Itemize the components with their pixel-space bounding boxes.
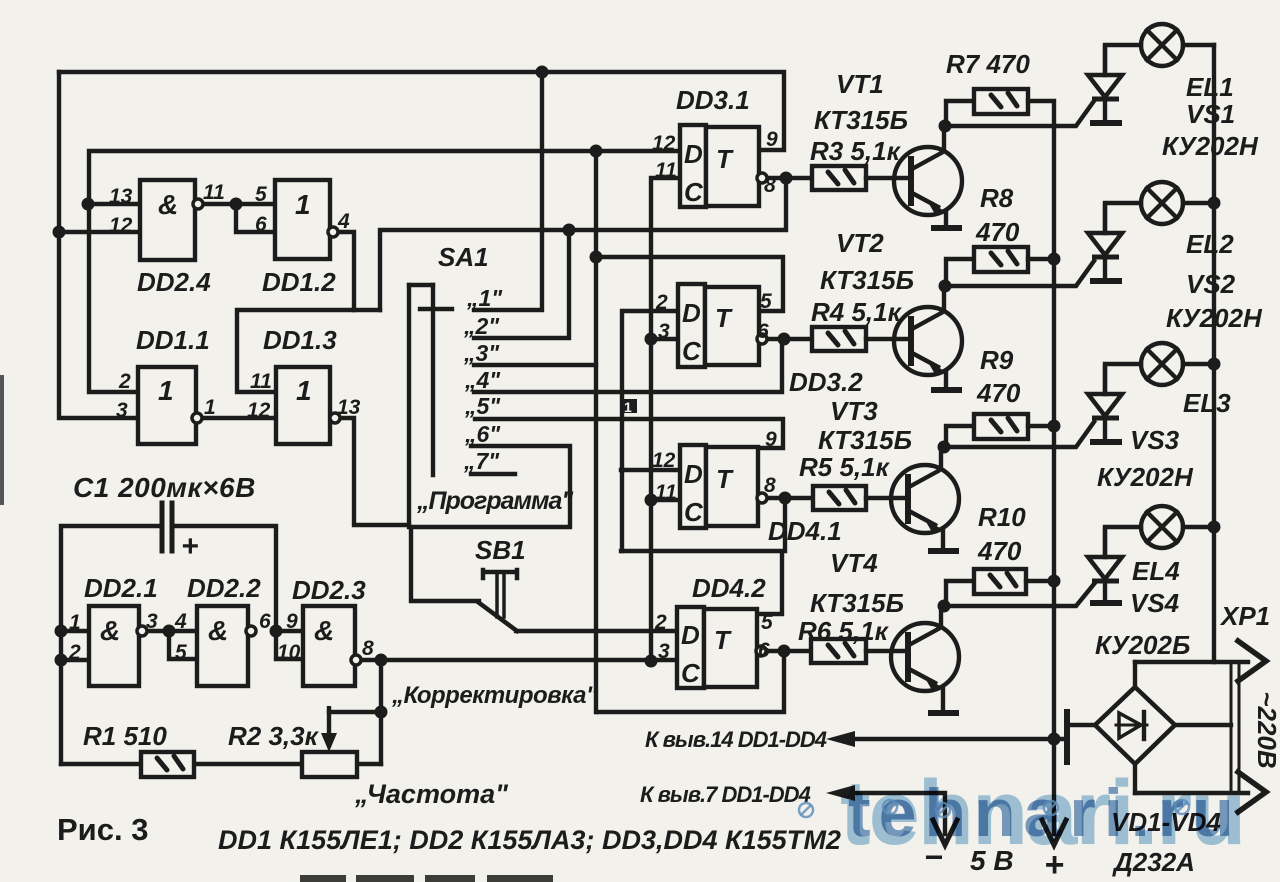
svg-text:D: D bbox=[684, 139, 703, 169]
svg-text:6: 6 bbox=[758, 639, 770, 662]
svg-text:VT4: VT4 bbox=[830, 548, 878, 578]
button SB1 actuator bar bbox=[483, 570, 517, 578]
wire DD2.4 pin 13 bbox=[88, 202, 140, 206]
bridge AC terminal bar bbox=[1064, 712, 1070, 762]
wire DD2.3 pin 9 bbox=[276, 629, 303, 633]
svg-text:3: 3 bbox=[658, 640, 670, 663]
svg-text:К выв.7 DD1-DD4: К выв.7 DD1-DD4 bbox=[640, 782, 811, 807]
svg-text:5: 5 bbox=[760, 290, 772, 313]
flip-flop DD4.1 D box bbox=[680, 445, 706, 528]
wire DD3.2 pin 6 to R4 bbox=[766, 337, 812, 341]
wire DD2.3 pin 10 jog bbox=[276, 631, 303, 659]
wire right rail bbox=[1212, 45, 1216, 662]
svg-text:R8: R8 bbox=[980, 183, 1014, 213]
switch SA1 wiper top join bbox=[409, 283, 433, 287]
svg-text:DD2.1: DD2.1 bbox=[84, 573, 158, 603]
svg-text:DD1.2: DD1.2 bbox=[262, 267, 336, 297]
gate DD1.1 box bbox=[138, 367, 196, 444]
svg-text:6: 6 bbox=[757, 320, 769, 343]
svg-text:T: T bbox=[715, 303, 733, 333]
svg-text:DD3.1: DD3.1 bbox=[676, 85, 750, 115]
wire DD4.2 pin 6 loop bbox=[597, 651, 784, 712]
resistor R8 marks bbox=[991, 251, 1017, 265]
svg-text:R1 510: R1 510 bbox=[83, 721, 167, 751]
wire DD2.1 pin 1 bbox=[61, 629, 89, 633]
arrow minus head bbox=[933, 820, 957, 845]
thyristor VS4 bbox=[1088, 527, 1122, 603]
svg-text:КТ315Б: КТ315Б bbox=[810, 588, 904, 618]
wire VS4 gate bbox=[944, 584, 1094, 606]
svg-text:R6 5,1к: R6 5,1к bbox=[798, 616, 890, 646]
potentiometer R2 wiper arrow bbox=[327, 706, 331, 736]
gate DD1.3 box bbox=[276, 367, 330, 444]
svg-text:T: T bbox=[716, 464, 734, 494]
svg-text:EL1: EL1 bbox=[1186, 72, 1234, 102]
wire bridge top lead bbox=[1133, 662, 1137, 687]
resistor R10 marks bbox=[990, 573, 1016, 587]
svg-text:К выв.14 DD1-DD4: К выв.14 DD1-DD4 bbox=[645, 727, 827, 752]
wire R4 to VT2 base bbox=[866, 337, 908, 341]
transistor VT3 bbox=[891, 447, 959, 551]
svg-text:C: C bbox=[681, 658, 701, 688]
wire DD2.2 pin 4 bbox=[169, 629, 197, 633]
resistor R10 body bbox=[974, 569, 1026, 594]
svg-text:VT2: VT2 bbox=[836, 228, 884, 258]
svg-text:DD4.2: DD4.2 bbox=[692, 573, 766, 603]
svg-text:„2": „2" bbox=[463, 313, 500, 339]
connector XP1 double line bbox=[1231, 663, 1239, 793]
inversion circle DD3.1 pin 8 bbox=[757, 173, 767, 183]
wire DD4.2 pin 6 to R6 bbox=[765, 649, 811, 653]
svg-text:8: 8 bbox=[362, 637, 374, 660]
inversion circle DD1.2 out bbox=[328, 227, 338, 237]
svg-text:VS2: VS2 bbox=[1186, 269, 1236, 299]
inversion circle DD2.1 out bbox=[137, 626, 147, 636]
svg-text:D: D bbox=[681, 620, 700, 650]
wire to pin 14 arrow line bbox=[838, 737, 1067, 741]
svg-text:„6": „6" bbox=[464, 421, 501, 447]
svg-text:DD1.1: DD1.1 bbox=[136, 325, 210, 355]
wire DD3.2 pin 2 riser bbox=[622, 311, 678, 551]
svg-text:3: 3 bbox=[658, 320, 670, 343]
artifact left edge bbox=[0, 375, 4, 505]
wire SA1 contact 7 bbox=[471, 472, 515, 476]
wire DD1.3 out 13 to SA1 wiper bbox=[339, 418, 409, 525]
wire R7 left lead bbox=[946, 101, 974, 126]
svg-text:„4": „4" bbox=[464, 367, 501, 393]
svg-text:&: & bbox=[158, 189, 178, 220]
wire DD2.1 out node bbox=[146, 629, 169, 633]
wire vertical net x596 bbox=[594, 151, 598, 712]
svg-text:КУ202Н: КУ202Н bbox=[1166, 303, 1263, 333]
lamp EL2 bbox=[1105, 182, 1214, 233]
wire to pin 7 arrow line bbox=[838, 793, 945, 834]
svg-text:9: 9 bbox=[765, 428, 777, 451]
svg-text:12: 12 bbox=[247, 399, 271, 422]
wire DD3.1 pin 8 to R3 bbox=[766, 176, 812, 180]
wire R8 left lead bbox=[946, 259, 974, 286]
wire R8 right lead bbox=[1028, 257, 1054, 261]
inversion circle DD1.1 out bbox=[192, 413, 202, 423]
inversion circle DD4.2 pin 6 bbox=[756, 646, 766, 656]
svg-text:КУ202Н: КУ202Н bbox=[1097, 462, 1194, 492]
resistor R9 body bbox=[974, 414, 1028, 439]
wire DD4.1 pin 12 bbox=[621, 468, 680, 472]
resistor R6 body bbox=[811, 639, 866, 663]
svg-text:8: 8 bbox=[764, 474, 776, 497]
svg-text:&: & bbox=[208, 615, 228, 646]
svg-text:12: 12 bbox=[652, 132, 676, 155]
wire SA1 contact 1 bbox=[474, 72, 542, 310]
wire long net A DD1.2 pin4 to DD3.1 pin8 bbox=[380, 178, 786, 310]
svg-text:„Программа": „Программа" bbox=[416, 487, 574, 515]
svg-text:8: 8 bbox=[764, 174, 776, 197]
wire DD4.2 pin 5 riser bbox=[757, 553, 782, 614]
svg-text:DD1 К155ЛЕ1; DD2 К155ЛА3;: DD1 К155ЛЕ1; DD2 К155ЛА3; DD3,DD4 К155ТМ… bbox=[218, 825, 841, 855]
resistor R8 body bbox=[974, 247, 1028, 272]
svg-text:EL3: EL3 bbox=[1183, 388, 1231, 418]
thyristor VS3 bbox=[1088, 364, 1122, 442]
wire SA1 contact 2 bbox=[474, 230, 569, 338]
wire R2 wiper top bbox=[329, 710, 381, 714]
lamp EL3 bbox=[1105, 343, 1214, 394]
junction dots bbox=[82, 198, 95, 211]
svg-text:1: 1 bbox=[624, 399, 632, 415]
wire bridge left lead bbox=[1067, 723, 1095, 727]
flip-flop DD3.2 D box bbox=[678, 284, 705, 367]
svg-text:Рис. 3: Рис. 3 bbox=[57, 812, 148, 847]
arrow XP1 top head bbox=[1238, 641, 1266, 681]
wire second rail to DD3.1 pin 12 bbox=[89, 151, 680, 392]
svg-text:КУ202Н: КУ202Н bbox=[1162, 131, 1259, 161]
wire DD3.2 pin 3 bbox=[651, 337, 678, 341]
svg-text:13: 13 bbox=[337, 396, 361, 419]
svg-text:КТ315Б: КТ315Б bbox=[818, 425, 912, 455]
inversion circle DD2.3 out bbox=[351, 655, 361, 665]
wire net B to DD3.2 pin 5 bbox=[596, 257, 783, 311]
watermark circles bbox=[799, 800, 1189, 817]
wire bridge right lead bbox=[1175, 723, 1231, 727]
wire VS3 gate bbox=[944, 422, 1094, 447]
wire DD1.1 out to DD1.3 pin 12 bbox=[201, 416, 276, 420]
svg-text:2: 2 bbox=[655, 291, 668, 314]
resistor R4 marks bbox=[828, 331, 854, 345]
resistor R7 body bbox=[974, 89, 1028, 114]
resistor R7 marks bbox=[991, 93, 1017, 107]
svg-text:5: 5 bbox=[255, 183, 267, 206]
resistor R1 power marks bbox=[157, 756, 183, 770]
inversion circle DD1.3 out bbox=[330, 413, 340, 423]
svg-text:3: 3 bbox=[116, 399, 128, 422]
wire DD1.2 pin 6 jog bbox=[236, 204, 275, 232]
svg-text:11: 11 bbox=[250, 370, 272, 393]
svg-text:~220В: ~220В bbox=[1252, 691, 1280, 768]
svg-text:„3": „3" bbox=[463, 340, 500, 366]
svg-text:DD3.2: DD3.2 bbox=[789, 367, 863, 397]
inversion circle DD2.2 out bbox=[246, 626, 256, 636]
wire DD1.2 pin 4 output bbox=[337, 232, 354, 310]
svg-text:VT3: VT3 bbox=[830, 396, 878, 426]
svg-text:1: 1 bbox=[69, 611, 81, 634]
wire R9 left lead bbox=[946, 426, 974, 447]
wire VS1 gate bbox=[945, 101, 1094, 126]
svg-text:&: & bbox=[314, 615, 334, 646]
transistor VT1 bbox=[894, 126, 962, 228]
transistor VT4 bbox=[891, 606, 959, 713]
switch SA1 wiper contact dash bbox=[420, 307, 452, 311]
svg-text:R4 5,1к: R4 5,1к bbox=[811, 297, 903, 327]
wire DD1.2 pin 5 bbox=[236, 202, 275, 206]
svg-text:R7 470: R7 470 bbox=[946, 49, 1030, 79]
svg-text:R9: R9 bbox=[980, 345, 1014, 375]
gate DD1.2 box bbox=[275, 180, 330, 259]
svg-text:T: T bbox=[714, 625, 732, 655]
svg-text:DD1.3: DD1.3 bbox=[263, 325, 337, 355]
svg-text:C: C bbox=[682, 336, 702, 366]
svg-text:9: 9 bbox=[766, 128, 778, 151]
transistor VT2 bbox=[894, 286, 962, 390]
svg-text:VS3: VS3 bbox=[1130, 425, 1180, 455]
svg-text:9: 9 bbox=[286, 610, 298, 633]
lamp EL1 bbox=[1105, 24, 1214, 75]
svg-text:КТ315Б: КТ315Б bbox=[814, 105, 908, 135]
svg-text:SB1: SB1 bbox=[475, 535, 526, 565]
resistor R9 marks bbox=[991, 418, 1017, 432]
wire R3 to VT1 base bbox=[866, 176, 908, 180]
wire R10 right lead bbox=[1026, 579, 1054, 583]
svg-text:C: C bbox=[684, 177, 704, 207]
wire clock line bbox=[651, 178, 680, 661]
wire VS2 gate bbox=[945, 261, 1094, 286]
svg-text:470: 470 bbox=[975, 217, 1020, 247]
wire DD2.1 pin 2 bbox=[61, 658, 89, 662]
wire bridge bottom lead bbox=[1133, 764, 1137, 793]
capacitor C1 right plate bbox=[170, 503, 175, 551]
switch SA1 wiper bracket right bbox=[431, 285, 435, 475]
svg-text:„7": „7" bbox=[463, 448, 500, 474]
svg-text:1: 1 bbox=[158, 375, 174, 406]
svg-text:R5 5,1к: R5 5,1к bbox=[799, 452, 891, 482]
gate DD2.1 box bbox=[89, 606, 139, 686]
wire R10 left lead bbox=[946, 581, 974, 606]
flip-flop DD4.1 T box bbox=[706, 447, 758, 526]
svg-text:470: 470 bbox=[977, 536, 1022, 566]
thyristor VS1 bbox=[1088, 45, 1122, 123]
svg-text:„5": „5" bbox=[464, 393, 501, 419]
svg-text:XP1: XP1 bbox=[1219, 601, 1270, 631]
wire R5 to VT3 base bbox=[866, 496, 905, 500]
arrow plus head bbox=[1042, 820, 1066, 845]
wire R2 branch bbox=[379, 660, 383, 764]
wire DD4.1 pin 8 to R5 bbox=[766, 496, 813, 500]
gate DD2.4 box bbox=[140, 180, 195, 260]
svg-text:1: 1 bbox=[295, 189, 311, 220]
wire plus rail bbox=[1028, 101, 1054, 739]
svg-text:КУ202Б: КУ202Б bbox=[1095, 630, 1190, 660]
wire DD4.1 feedback bottom bbox=[621, 498, 785, 551]
potentiometer R2 body bbox=[302, 752, 357, 777]
svg-text:2: 2 bbox=[68, 641, 81, 664]
svg-text:VS4: VS4 bbox=[1130, 588, 1180, 618]
wire DD2.4 out to node bbox=[202, 202, 236, 206]
svg-text:R2 3,3к: R2 3,3к bbox=[228, 721, 320, 751]
gate DD2.2 box bbox=[197, 606, 248, 686]
capacitor C1 left plate bbox=[160, 503, 165, 551]
thyristor VS2 bbox=[1088, 203, 1122, 281]
lamp EL4 bbox=[1105, 506, 1214, 557]
svg-text:11: 11 bbox=[655, 481, 677, 504]
resistor R5 body bbox=[813, 486, 866, 510]
svg-text:„Частота": „Частота" bbox=[354, 779, 509, 809]
svg-text:DD4.1: DD4.1 bbox=[768, 516, 842, 546]
wire DD2.4 pin 12 bbox=[59, 230, 140, 234]
flip-flop DD3.2 T box bbox=[705, 287, 759, 365]
svg-text:1: 1 bbox=[204, 396, 216, 419]
wire SB1 to DD4.2 pin 2 bbox=[516, 629, 677, 633]
svg-text:3: 3 bbox=[146, 610, 158, 633]
flip-flop DD4.2 T box bbox=[704, 609, 757, 687]
wire bottom rail R1 R2 bbox=[61, 762, 381, 766]
resistor R3 body bbox=[812, 166, 866, 190]
wire R9 right lead bbox=[1028, 424, 1054, 428]
artifact ink blob bbox=[620, 399, 637, 415]
wire left vertical to DD1.1 pin 3 bbox=[59, 72, 138, 418]
svg-text:С1 200мк×6В: С1 200мк×6В bbox=[73, 472, 256, 503]
bridge rectifier VD1-VD4 diamond bbox=[1095, 687, 1175, 764]
svg-text:470: 470 bbox=[976, 378, 1021, 408]
wire SA1 contact 4 to DD3.2 pin 6 bbox=[474, 339, 782, 392]
svg-text:DD2.3: DD2.3 bbox=[292, 575, 366, 605]
wire correction line DD2.3 out to DD4.2 pin 3 bbox=[360, 658, 677, 662]
svg-text:„1": „1" bbox=[466, 285, 503, 311]
svg-text:5: 5 bbox=[175, 641, 187, 664]
arrow XP1 bottom head bbox=[1238, 772, 1266, 812]
svg-text:1: 1 bbox=[296, 375, 312, 406]
resistor R5 marks bbox=[829, 490, 855, 504]
wire SA1 contact 3 bbox=[474, 363, 596, 367]
arrow pin14 head bbox=[826, 731, 855, 747]
flip-flop DD3.1 T box bbox=[706, 127, 759, 206]
bridge inner diode bbox=[1116, 724, 1147, 727]
flip-flop DD3.1 D box bbox=[680, 125, 706, 207]
svg-text:VT1: VT1 bbox=[836, 69, 884, 99]
svg-text:13: 13 bbox=[109, 185, 133, 208]
svg-text:КТ315Б: КТ315Б bbox=[820, 265, 914, 295]
wire C1 right to DD2.2 out node bbox=[174, 526, 276, 631]
svg-text:11: 11 bbox=[655, 159, 677, 182]
svg-text:„Корректировка": „Корректировка" bbox=[391, 682, 598, 709]
svg-text:EL2: EL2 bbox=[1186, 229, 1234, 259]
button SB1 stem bbox=[497, 574, 504, 617]
svg-text:EL4: EL4 bbox=[1132, 556, 1180, 586]
svg-text:DD2.4: DD2.4 bbox=[137, 267, 211, 297]
wire DD4.1 pin 11 bbox=[651, 498, 680, 502]
svg-text:+: + bbox=[181, 530, 199, 563]
svg-text:6: 6 bbox=[259, 610, 271, 633]
wire top rail to DD3.1 pin 9 bbox=[59, 72, 784, 150]
flip-flop DD4.2 D box bbox=[677, 607, 704, 688]
wire feedback to DD1.3 pin 11 bbox=[237, 310, 380, 392]
svg-text:R10: R10 bbox=[978, 502, 1026, 532]
svg-text:10: 10 bbox=[277, 641, 301, 664]
arrow pin7 head bbox=[826, 785, 855, 801]
wire SA1 contact 5 to DD4.1 pin 9 bbox=[475, 419, 783, 448]
svg-text:2: 2 bbox=[118, 370, 131, 393]
bottom edge cut text artifacts bbox=[300, 875, 553, 882]
wire plus drop bbox=[1052, 739, 1056, 834]
svg-text:VS1: VS1 bbox=[1186, 99, 1235, 129]
resistor R1 body bbox=[141, 752, 194, 777]
svg-text:&: & bbox=[100, 615, 120, 646]
switch SA1 wiper bracket left bbox=[407, 285, 411, 527]
inversion circle DD3.2 pin 6 bbox=[757, 334, 767, 344]
button SB1 blade bbox=[478, 602, 517, 631]
wire XP1 top pin bbox=[1135, 660, 1248, 664]
svg-text:11: 11 bbox=[203, 181, 225, 204]
svg-text:2: 2 bbox=[654, 611, 667, 634]
gate DD2.3 box bbox=[303, 606, 355, 686]
svg-text:5: 5 bbox=[761, 611, 773, 634]
wire C1 left bbox=[61, 526, 160, 764]
svg-text:6: 6 bbox=[255, 213, 267, 236]
svg-text:12: 12 bbox=[652, 449, 676, 472]
svg-text:4: 4 bbox=[174, 610, 187, 633]
svg-text:12: 12 bbox=[109, 214, 133, 237]
wire DD2.2 pin 5 jog bbox=[169, 631, 197, 659]
svg-text:R3 5,1к: R3 5,1к bbox=[810, 136, 902, 166]
svg-text:4: 4 bbox=[337, 210, 350, 233]
resistor R3 marks bbox=[828, 170, 854, 184]
wire XP1 bottom pin bbox=[1135, 791, 1248, 795]
svg-text:T: T bbox=[716, 144, 734, 174]
svg-text:D: D bbox=[682, 298, 701, 328]
inversion circle DD2.4 out bbox=[193, 199, 203, 209]
svg-text:SA1: SA1 bbox=[438, 242, 489, 272]
svg-text:C: C bbox=[684, 497, 704, 527]
inversion circle DD4.1 pin 8 bbox=[757, 493, 767, 503]
wire R6 to VT4 base bbox=[866, 649, 905, 653]
svg-text:D: D bbox=[684, 459, 703, 489]
resistor R4 body bbox=[812, 327, 866, 351]
svg-text:DD2.2: DD2.2 bbox=[187, 573, 261, 603]
wire SA1 contact 6 loop bbox=[411, 446, 570, 601]
resistor R6 marks bbox=[828, 643, 854, 657]
